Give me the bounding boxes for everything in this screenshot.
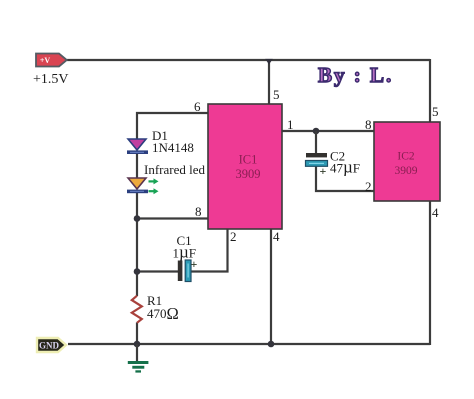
svg-text:2: 2 bbox=[230, 229, 237, 244]
svg-text:Infrared led: Infrared led bbox=[144, 162, 205, 177]
svg-text:4: 4 bbox=[432, 205, 439, 220]
svg-text:+V: +V bbox=[40, 56, 51, 65]
node junction top rail bbox=[265, 59, 273, 65]
wire IC1 pin5 vertical bbox=[268, 60, 270, 104]
svg-text:8: 8 bbox=[195, 204, 202, 219]
wire R1 bottom lead bbox=[136, 323, 138, 346]
resistor R1 bbox=[132, 296, 142, 323]
wire IC1 pin1 to IC2 pin8 bbox=[282, 130, 374, 132]
ground bbox=[128, 361, 149, 373]
wire C2 bottom to IC2 pin2 bbox=[316, 166, 374, 191]
wire IC2 pin5 vertical bbox=[429, 59, 431, 122]
svg-text:6: 6 bbox=[194, 99, 201, 114]
svg-text:3909: 3909 bbox=[395, 165, 418, 177]
wire IC1 pin4 down bbox=[270, 229, 272, 344]
GND flag bbox=[37, 338, 66, 352]
node junction ground bbox=[134, 341, 141, 348]
op-amp U2 IC2 bbox=[374, 122, 440, 201]
wire ground stub bbox=[136, 344, 138, 361]
wire IC1 pin6 branch bbox=[137, 113, 208, 139]
node junction pin4 bottom bbox=[268, 341, 275, 348]
LED infrared bbox=[127, 178, 159, 194]
led arrow 1 bbox=[149, 178, 159, 184]
led arrow 2 bbox=[149, 188, 159, 194]
wire IC2 pin4 down bbox=[429, 201, 431, 345]
svg-text:47µF: 47µF bbox=[330, 158, 360, 177]
svg-text:5: 5 bbox=[273, 87, 280, 102]
wire LED down to bottom bbox=[136, 193, 138, 296]
node junction C2 top bbox=[313, 128, 320, 135]
svg-text:+: + bbox=[320, 164, 327, 178]
capacitor C1 bbox=[178, 257, 198, 282]
power flag +V bbox=[36, 54, 67, 67]
svg-text:GND: GND bbox=[39, 341, 60, 351]
svg-text:2: 2 bbox=[365, 179, 372, 194]
svg-text:By : L.: By : L. bbox=[318, 63, 393, 87]
svg-text:470Ω: 470Ω bbox=[147, 304, 179, 323]
svg-text:1: 1 bbox=[287, 117, 294, 132]
diode D1 bbox=[127, 139, 148, 154]
capacitor C2 bbox=[306, 153, 328, 178]
svg-text:1µF: 1µF bbox=[173, 243, 197, 262]
wire top rail +V bbox=[67, 59, 430, 61]
svg-text:IC2: IC2 bbox=[397, 151, 415, 163]
wire IC1 pin8 bbox=[137, 217, 208, 219]
wire bottom rail GND bbox=[68, 343, 430, 345]
svg-text:8: 8 bbox=[365, 117, 372, 132]
node junction pin8 bbox=[134, 215, 141, 222]
svg-text:3909: 3909 bbox=[236, 167, 261, 181]
wire C1 left lead bbox=[137, 270, 178, 272]
svg-text:+1.5V: +1.5V bbox=[33, 72, 69, 87]
svg-text:IC1: IC1 bbox=[239, 153, 258, 167]
svg-text:4: 4 bbox=[273, 229, 280, 244]
wire IC1 pin2 to C1 bbox=[191, 229, 228, 272]
wire C2 top lead bbox=[315, 131, 317, 154]
wire D1 to LED bbox=[136, 154, 138, 178]
node junction C1 left bbox=[134, 268, 141, 275]
svg-text:5: 5 bbox=[432, 104, 439, 119]
svg-text:1N4148: 1N4148 bbox=[152, 140, 194, 155]
op-amp U1 IC1 bbox=[208, 104, 282, 229]
